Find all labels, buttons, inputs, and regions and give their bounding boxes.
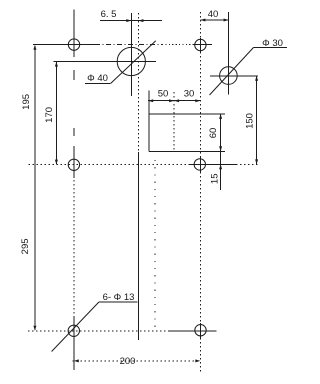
dimension 200 line y=360.9	[72, 360, 199, 362]
dimension 60 arrow up	[219, 114, 222, 119]
svg-text:60: 60	[208, 128, 219, 139]
svg-text:200: 200	[120, 356, 136, 367]
wire top hole-row centerline y=44.7	[33, 44, 95, 46]
wire mid hole-row centerline y=164.6	[29, 164, 190, 166]
dimension 50-30 middle arrows	[169, 99, 174, 102]
centerline left hole column bottom	[73, 316, 75, 370]
rectangle cutout middle dotted line x=174.1	[173, 92, 175, 151]
hole bottom-left	[68, 325, 79, 336]
svg-text:6- Φ 13: 6- Φ 13	[103, 292, 135, 303]
svg-text:Φ 40: Φ 40	[87, 73, 108, 84]
hole phi30	[220, 67, 238, 85]
centerline left hole column dashes	[73, 70, 75, 80]
dimension 170 arrow up	[55, 62, 58, 67]
vertical centerline x=131.3 through phi40	[130, 13, 132, 96]
svg-text:Φ 30: Φ 30	[262, 38, 283, 49]
vertical extension line x=138.4 dotted top	[137, 13, 139, 152]
hole mid-right	[194, 159, 205, 170]
rectangle cutout bottom edge with extension	[149, 150, 225, 152]
dimension 195 arrow up	[33, 45, 36, 50]
centerline right hole column x=200.4	[199, 12, 201, 38]
dimension 6.5 line y=20.6	[100, 20, 162, 22]
dimension 50-30 line y=100.7	[148, 100, 200, 102]
svg-text:40: 40	[208, 9, 219, 20]
centerline left hole column dotted mid	[73, 180, 75, 316]
dimension 200 arrow left	[74, 359, 79, 362]
label 6-phi13 underline	[99, 301, 138, 303]
dimension 150 line x=257.3	[256, 76, 258, 165]
wire bottom hole-row centerline y=330.8	[28, 330, 168, 332]
dimension 195-295 line x=34.9	[34, 46, 36, 330]
svg-text:6. 5: 6. 5	[101, 9, 117, 20]
dimension 30 arrow right	[195, 99, 200, 102]
svg-text:170: 170	[44, 107, 55, 123]
vertical centerline x=228.6 phi30	[228, 12, 230, 95]
dimension 6.5 arrow right tip	[126, 19, 131, 22]
leader line phi30	[210, 48, 254, 96]
svg-text:295: 295	[20, 238, 31, 254]
svg-text:15: 15	[209, 174, 220, 185]
svg-text:50: 50	[158, 89, 169, 100]
wire phi40 horizontal centerline y=61.6	[54, 61, 157, 63]
horizontal centerline phi30 y=75.8	[210, 75, 258, 77]
dimension 15 arrow up from below	[219, 164, 222, 169]
dimension 170 arrow down	[55, 160, 58, 165]
svg-text:150: 150	[244, 113, 255, 129]
dimension 15 extension line x=222.3	[220, 151, 222, 190]
dimension 60 arrow down	[219, 146, 222, 151]
dimension 40 line y=20	[200, 19, 228, 21]
svg-text:30: 30	[184, 89, 195, 100]
dimension 40 arrow right	[224, 19, 229, 22]
dimension 170 line x=56.4	[55, 62, 57, 164]
hole mid-left	[68, 159, 79, 170]
hole top-right	[195, 39, 206, 50]
dimension 150 arrow down	[255, 159, 258, 164]
centerline sparse dotted x=155.2	[154, 160, 156, 330]
dimension 150 arrow up	[255, 76, 258, 81]
label phi40 underline	[85, 82, 111, 84]
dimension 40 arrow left	[200, 19, 205, 22]
hole phi40	[117, 47, 145, 75]
vertical solid line x=138.4 bottom	[137, 152, 139, 340]
svg-text:195: 195	[21, 94, 32, 110]
centerline left hole column x=74 top	[73, 9, 75, 57]
leader line 6-phi13	[52, 302, 99, 352]
dimension 6.5 arrow left tip	[138, 19, 143, 22]
leader line phi40	[111, 41, 156, 84]
hole top-left	[68, 39, 79, 50]
dimension 50 arrow left	[148, 99, 153, 102]
hole bottom-right	[195, 325, 206, 336]
dimension 295 arrow down	[33, 326, 36, 331]
rectangle cutout top edge with extension	[149, 113, 225, 115]
rectangle cutout left edge x=149.5	[148, 91, 150, 152]
label phi30 underline	[254, 47, 288, 49]
dimension 200 arrow right	[195, 359, 200, 362]
dimension 60 line x=222.3	[220, 114, 222, 151]
